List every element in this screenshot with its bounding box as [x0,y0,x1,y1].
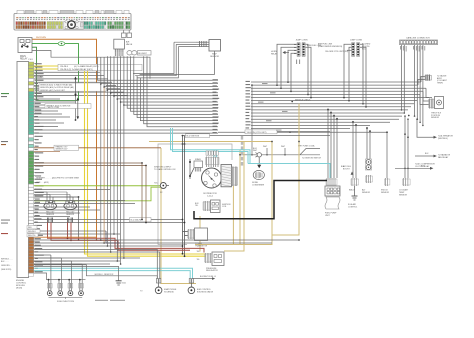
a/c idle boost label [343,165,353,175]
left margin tiny labels [1,259,13,272]
svg-text:SENSOR: SENSOR [46,214,55,216]
label pre-heated o2 text [36,177,80,185]
svg-text:G101: G101 [122,283,126,285]
wire WHT/GRN orange return [34,236,97,238]
wire cascade verticals feeding left band [34,56,218,133]
svg-text:WHT FUSE #4 15A: WHT FUSE #4 15A [298,144,315,147]
label boxes near ECM bottom [27,226,40,238]
knock sensor [381,178,390,194]
left margin destination labels [1,93,10,234]
svg-text:FUEL INJECTORS: FUEL INJECTORS [57,301,75,303]
wires to purge solenoid [34,250,160,279]
svg-text:TDC: TDC [154,183,159,185]
svg-text:(ECM): (ECM) [16,287,22,289]
wire left to valve1 label [140,291,143,293]
wires gray mid 190s [34,190,135,217]
ignition switch symbol [189,159,194,179]
wire common injector feed [34,255,86,291]
wires O2 sensor red leads [48,223,205,253]
label box To SERVICE CHECK connector [45,104,91,110]
wires drops to coolant temp sensor [404,115,409,178]
wires brown short mid [34,152,147,224]
svg-text:(EVAPORATIVE EMISSION): (EVAPORATIVE EMISSION) [318,45,342,48]
B+ terminal plug [253,148,261,157]
fuse block under connector [122,30,132,37]
jump connector 1 side labels [307,44,342,49]
svg-text:1-3-4-2: 1-3-4-2 [207,195,213,197]
ECM pin column colored cells [29,62,34,276]
svg-text:BLU/WHT: BLU/WHT [138,53,147,55]
svg-text:GRN/WHT . . . . . . (A12) PRI: GRN/WHT . . . . . . (A12) PRI HTD OXYGEN… [36,177,80,180]
connector pin block C (teal) [84,22,106,29]
jump connector 1 lower labels [296,60,300,65]
MAP sensor [200,40,221,59]
wire thick black coil secondary [194,181,327,219]
wire drop to knock sensor [386,131,388,178]
span arrow wire x77.8 [77,97,80,119]
connector pin block D (green) [108,22,131,29]
svg-text:WHT/GRN: WHT/GRN [36,37,46,39]
svg-text:WHT/BLU , RESISTOR: WHT/BLU , RESISTOR [95,274,114,276]
wire MAP sensor 4th lead [140,51,215,74]
wire BLK/YEL relay feed [32,51,150,79]
oxygen sensor PRI [44,201,57,223]
label ignition timing adjuster [154,167,176,172]
junction dots [239,81,409,155]
svg-text:GRN/ORN . .: GRN/ORN . . [1,265,12,267]
wires service connector drops [401,45,424,127]
svg-text:SENSOR: SENSOR [66,214,75,216]
svg-text:WHT: WHT [281,146,286,148]
span arrow wire x75.5 [74,76,77,96]
svg-text:YEL: YEL [197,259,200,261]
svg-text:BLK . . . .: BLK . . . . [1,261,9,263]
wire yel/grn long with label box [218,130,387,134]
wire B+ horizontal mid right [341,166,433,170]
ignition section enclosure box [158,143,232,244]
svg-text:TEMP): TEMP) [437,82,443,84]
connector pin color-code labels [16,17,130,20]
svg-text:YEL: YEL [195,205,198,207]
svg-text:GRN . . . (A13): GRN . . . (A13) [36,181,49,184]
power transistor unit [188,228,208,247]
wire YEL/BLK IGP2 (yellow) [34,69,206,256]
pressure regulator solenoid unit (ICM) [197,251,225,272]
wires jump connector 2 loops [344,44,366,107]
distributor cap pins [206,157,220,168]
wire tan net around ignition [149,104,299,284]
service connector pin labels [400,46,425,52]
wire white y154.8 with fuse labels [240,144,322,159]
svg-text:FAN RELAY: FAN RELAY [438,156,449,159]
svg-text:MAIN: MAIN [20,55,26,58]
svg-text:RELAY: RELAY [20,58,28,61]
svg-text:YEL/GRN CTRL UNIT (RR): YEL/GRN CTRL UNIT (RR) [325,51,348,53]
svg-text:YEL/GRN (CTRL UNIT): YEL/GRN (CTRL UNIT) [247,132,267,134]
wire bundle ECM mid pins into cascade lower [34,78,76,126]
distributor [202,168,222,197]
wire WHT/GRN main relay to IGP (orange) [32,37,97,241]
svg-text:SENSOR: SENSOR [399,194,408,196]
svg-text:GRN/ORN (A16) To INTRLK RELAY: GRN/ORN (A16) To INTRLK RELAY (A8) [40,86,74,89]
ground G101 [34,267,126,286]
wire right arrow y137 [434,135,454,140]
svg-text:BLU IGNITION: BLU IGNITION [187,136,200,138]
jump connector 2 [350,40,362,57]
connector pin block A (brown) [16,22,46,29]
wire EGR valve to fuse [193,276,216,280]
intake air resonator valve box [114,39,133,52]
fuel injector No.4 [79,283,84,296]
svg-text:To IGNITION SWITCH: To IGNITION SWITCH [302,157,322,159]
svg-text:NC: NC [160,192,163,194]
TDC/CKP sensor [154,183,169,194]
label box on ignition wire [34,218,185,223]
ac compressor clutch relay label [415,163,435,168]
svg-text:SOLENOID VALVE: SOLENOID VALVE [197,290,214,293]
svg-text:TO: TO [140,291,143,293]
wire bundle long verticals to bottom zone [100,83,125,265]
svg-text:COIL: COIL [222,206,226,208]
right band resume labels [246,81,252,132]
throttle position sensor connector+box [429,97,444,120]
svg-text:BLU (TACH): BLU (TACH) [131,219,142,222]
connector mounting bolt [64,21,84,29]
wire GRN/WHT to TDC sensor [34,187,160,201]
connector pin block B (yellow-green) [47,22,63,29]
svg-text:BLK/WHT FUSE #4: BLK/WHT FUSE #4 [200,276,216,278]
svg-text:SENSOR: SENSOR [431,117,440,119]
wire cyan distributor feed [171,128,331,178]
ignition coil unit [195,200,231,213]
svg-text:WHT: WHT [263,146,268,148]
engine coolant temp sender 2-pin [425,75,448,85]
wire cyan cranking signal [34,268,193,282]
svg-text:GRN/BLK (A15) To RADIO RELAY (: GRN/BLK (A15) To RADIO RELAY (A6) [40,84,73,87]
noise condenser [252,158,265,187]
wire bundle right band horizontals [251,77,432,132]
svg-text:VALVE: VALVE [126,43,133,46]
fuel injector No.3 [68,283,73,296]
svg-text:TO RADIO INTERLOCK: TO RADIO INTERLOCK [154,168,176,171]
ECM pin name labels [35,63,44,272]
wire bundle ECM upper pins to cascade [34,72,128,95]
wire drop to B+ feed [251,84,253,155]
fuel injector No.1 [47,283,52,296]
label fuel injectors [49,297,126,303]
svg-text:RED/BLU: RED/BLU [28,231,36,233]
arrow to horn relay [271,51,289,56]
wire GRN to TDC sensor [34,185,160,187]
wires dark verticals to power transistor [182,136,188,258]
wire GRN main relay with inline connector [32,42,79,101]
svg-text:YEL: YEL [197,251,200,253]
connector C101 ECM harness connector strip [14,10,131,30]
ECM/PCM engine control module [16,59,34,289]
fuel pump resistor connector unit [325,178,340,217]
svg-text:BLK: BLK [425,153,429,155]
svg-text:TRANSISTOR: TRANSISTOR [195,244,208,247]
wire YEL/BLK IGP1 (yellow) [34,66,206,254]
svg-text:RED/YEL: RED/YEL [28,235,36,237]
wires MAP sensor to ECM (3 stepped) [133,42,209,73]
svg-text:(SEE NOTE): (SEE NOTE) [1,269,12,271]
wire air flow meter leads into cascade [115,53,123,57]
svg-text:RELAY: RELAY [271,53,278,56]
svg-text:CLUTCH RELAY: CLUTCH RELAY [415,165,430,168]
label box heated oxygen sensor wire [34,145,161,151]
svg-text:(WHT/BLU): (WHT/BLU) [438,138,448,140]
svg-text:UNIT: UNIT [325,215,330,217]
svg-text:CONTROL: CONTROL [348,206,357,208]
wires jump connector 1 loops [277,44,311,97]
svg-text:CONDENSER: CONDENSER [252,185,265,187]
svg-text:C101: C101 [28,59,34,61]
wire color code labels right band [258,83,288,131]
wires drops to idle air control valve [352,122,357,179]
svg-text:SENSOR: SENSOR [362,192,371,194]
solenoid valve EVAP PURGE [155,279,177,294]
svg-text:BLK: BLK [40,76,44,78]
ect sensor [399,178,410,196]
svg-text:YEL/BLK (F) To MAIN RELAY (IG: YEL/BLK (F) To MAIN RELAY (IGP1) [60,68,93,71]
wires drops to 2P connector sensor [366,128,371,159]
vehicle speed sensor 2P connector [362,159,373,194]
svg-text:SENSOR 12V: SENSOR 12V [56,149,69,151]
wire right arrow y156 [415,153,451,159]
wire to alternator arrow via vertical [416,118,433,137]
fuse list vertical text in tan box [241,136,243,166]
svg-text:JUMP CONN: JUMP CONN [296,40,308,42]
oxygen sensor SEC [64,201,77,223]
svg-text:SOLENOID: SOLENOID [164,291,174,293]
svg-text:GRN/RED (A17) To ELD UNIT: GRN/RED (A17) To ELD UNIT [40,89,66,92]
jump connector 1 [294,40,308,57]
svg-text:WHT: WHT [253,150,258,152]
svg-text:SPARK: SPARK [195,158,202,161]
svg-text:DATA LINK CONNECTOR: DATA LINK CONNECTOR [406,37,430,40]
wires O2 sensor stubs up [34,192,79,241]
fuel injector No.2 [58,283,63,296]
service check connector strip [400,37,438,45]
label box To MAIN RELAY [58,64,142,71]
ECM pin stubs [34,64,37,272]
svg-text:SERVICE CHECK: SERVICE CHECK [295,100,311,102]
wire service check label [291,100,311,103]
svg-text:JUMP CONN: JUMP CONN [350,40,362,42]
wire injector resistor feed [34,265,157,279]
svg-text:SENSOR: SENSOR [381,192,390,194]
jump connector 2 side labels [325,44,371,54]
spark plug block [194,158,203,172]
svg-text:BOOST: BOOST [343,168,350,170]
main relay [18,38,32,61]
distributor cap connector [206,151,218,155]
idle air control valve [348,178,359,208]
wires brown zone bundle [34,231,300,264]
ignition coil in distributor [221,165,238,187]
label box To RADIO/INTRLK/ELD relays [39,76,106,91]
svg-text:REGULATOR: REGULATOR [206,269,218,272]
inline connector chain [127,51,151,55]
wires drops to fuel pump connector [327,109,338,178]
wire blu tach line with label box [182,134,330,138]
left band end labels [213,79,220,133]
wire dark green loop [32,47,79,100]
svg-text:(G) To MAIN RELAY (IGP2): (G) To MAIN RELAY (IGP2) [74,65,99,68]
solenoid valve EGR CONTROL [188,279,214,294]
svg-text:CHECK CONN: CHECK CONN [47,107,60,109]
